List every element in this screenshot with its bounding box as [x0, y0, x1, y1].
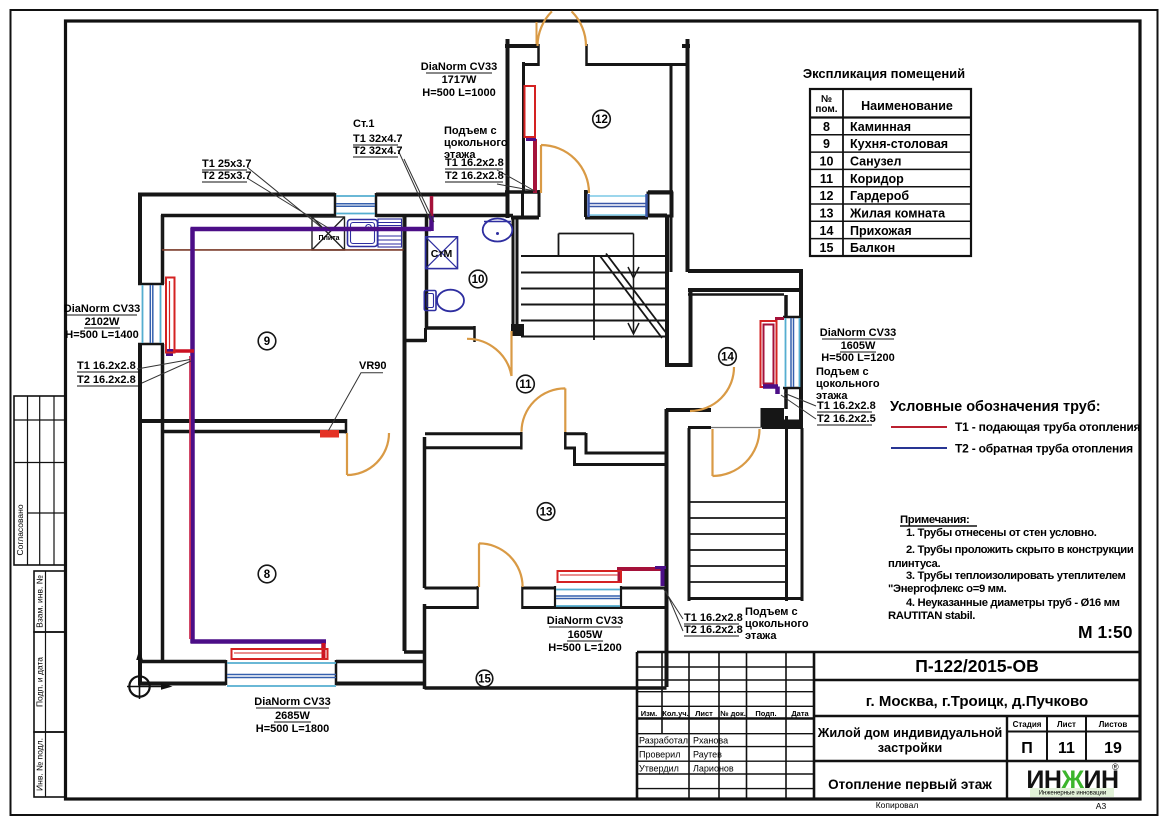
svg-text:15: 15: [478, 674, 491, 686]
svg-text:М 1:50: М 1:50: [1078, 622, 1133, 642]
svg-text:Т2 25х3.7: Т2 25х3.7: [202, 170, 252, 182]
svg-text:Примечания:: Примечания:: [900, 514, 969, 526]
svg-text:Листов: Листов: [1099, 720, 1128, 729]
svg-text:Т1 16.2х2.8: Т1 16.2х2.8: [77, 360, 136, 372]
svg-text:Экспликация помещений: Экспликация помещений: [803, 66, 965, 81]
svg-text:цокольного: цокольного: [444, 137, 508, 149]
svg-text:8: 8: [264, 569, 271, 581]
svg-text:Жилой дом индивидуальной: Жилой дом индивидуальной: [817, 725, 1003, 740]
svg-text:1605W: 1605W: [841, 340, 876, 352]
svg-text:СтМ: СтМ: [431, 248, 453, 260]
svg-text:2. Трубы проложить скрыто в ко: 2. Трубы проложить скрыто в конструкции: [906, 544, 1134, 556]
svg-text:DiaNorm CV33: DiaNorm CV33: [64, 303, 140, 315]
svg-text:Т2 16.2х2.5: Т2 16.2х2.5: [817, 413, 876, 425]
svg-text:DiaNorm CV33: DiaNorm CV33: [421, 61, 497, 73]
svg-text:1605W: 1605W: [568, 629, 603, 641]
svg-text:H=500 L=1200: H=500 L=1200: [821, 352, 894, 364]
svg-text:H=500 L=1200: H=500 L=1200: [548, 642, 621, 654]
svg-text:Согласовано: Согласовано: [15, 504, 25, 555]
svg-text:Проверил: Проверил: [639, 750, 680, 760]
svg-text:пом.: пом.: [815, 104, 837, 115]
svg-text:DiaNorm CV33: DiaNorm CV33: [547, 615, 623, 627]
svg-text:12: 12: [595, 114, 608, 126]
svg-text:14: 14: [721, 352, 734, 364]
svg-text:Условные обозначения труб:: Условные обозначения труб:: [890, 399, 1101, 415]
svg-text:11: 11: [1058, 740, 1075, 757]
svg-text:Балкон: Балкон: [850, 241, 895, 255]
svg-text:10: 10: [820, 155, 834, 169]
svg-text:г. Москва, г.Троицк, д.Пучково: г. Москва, г.Троицк, д.Пучково: [866, 693, 1088, 710]
svg-text:Дата: Дата: [791, 709, 809, 718]
svg-text:19: 19: [1104, 740, 1122, 757]
svg-text:Т1 - подающая труба отопления: Т1 - подающая труба отопления: [955, 420, 1141, 434]
svg-text:Кухня-столовая: Кухня-столовая: [850, 137, 948, 151]
svg-text:П-122/2015-ОВ: П-122/2015-ОВ: [915, 656, 1038, 676]
svg-text:А3: А3: [1096, 801, 1107, 811]
svg-text:Т2 16.2х2.8: Т2 16.2х2.8: [77, 374, 136, 386]
svg-text:9: 9: [264, 336, 270, 348]
svg-text:Взам. инв. №: Взам. инв. №: [34, 575, 44, 628]
svg-text:Лист: Лист: [695, 709, 713, 718]
svg-text:"Энергофлекс o=9 мм.: "Энергофлекс o=9 мм.: [888, 583, 1007, 595]
svg-text:RAUTITAN stabil.: RAUTITAN stabil.: [888, 610, 975, 622]
svg-text:Подъем с: Подъем с: [444, 125, 497, 137]
svg-text:Каминная: Каминная: [850, 120, 911, 134]
svg-text:4. Неуказанные диаметры труб -: 4. Неуказанные диаметры труб - Ø16 мм: [906, 597, 1120, 609]
svg-text:Разработал: Разработал: [639, 736, 688, 746]
svg-text:Жилая комната: Жилая комната: [849, 207, 946, 221]
svg-text:застройки: застройки: [878, 740, 942, 755]
svg-text:9: 9: [823, 137, 830, 151]
svg-text:H=500 L=1400: H=500 L=1400: [65, 329, 138, 341]
svg-text:11: 11: [820, 172, 833, 186]
svg-text:Подъем с: Подъем с: [745, 606, 798, 618]
svg-text:цокольного: цокольного: [745, 618, 809, 630]
svg-text:Прихожая: Прихожая: [850, 224, 912, 238]
svg-text:Т1 16.2х2.8: Т1 16.2х2.8: [445, 157, 504, 169]
svg-text:10: 10: [472, 274, 485, 286]
svg-text:№ док.: № док.: [720, 709, 746, 718]
svg-text:Инв. № подл.: Инв. № подл.: [34, 738, 44, 791]
svg-text:цокольного: цокольного: [816, 378, 880, 390]
svg-text:DiaNorm CV33: DiaNorm CV33: [254, 696, 330, 708]
svg-text:14: 14: [820, 224, 834, 238]
svg-text:Кол.уч.: Кол.уч.: [662, 709, 688, 718]
svg-text:Санузел: Санузел: [850, 155, 901, 169]
svg-text:Отопление первый этаж: Отопление первый этаж: [828, 777, 992, 792]
svg-text:Коридор: Коридор: [850, 172, 904, 186]
svg-text:Раутев: Раутев: [693, 750, 722, 760]
svg-text:Т1 32х4.7: Т1 32х4.7: [353, 133, 403, 145]
svg-text:плинтуса.: плинтуса.: [888, 558, 940, 570]
svg-text:®: ®: [1112, 762, 1119, 772]
svg-text:Т1 16.2х2.8: Т1 16.2х2.8: [817, 400, 876, 412]
svg-text:Гардероб: Гардероб: [850, 189, 909, 203]
svg-text:H=500 L=1000: H=500 L=1000: [422, 87, 495, 99]
svg-text:Ст.1: Ст.1: [353, 118, 375, 130]
svg-text:VR90: VR90: [359, 360, 387, 372]
svg-text:Наименование: Наименование: [861, 99, 953, 113]
svg-text:Ларионов: Ларионов: [693, 764, 734, 774]
svg-text:Т1 16.2х2.8: Т1 16.2х2.8: [684, 612, 743, 624]
svg-text:1. Трубы отнесены от стен усло: 1. Трубы отнесены от стен условно.: [906, 527, 1097, 539]
svg-text:15: 15: [820, 241, 834, 255]
svg-text:3. Трубы теплоизолировать утеп: 3. Трубы теплоизолировать утеплителем: [906, 570, 1125, 582]
svg-text:Стадия: Стадия: [1013, 720, 1042, 729]
svg-text:Инженерные инновации: Инженерные инновации: [1039, 791, 1107, 797]
svg-text:Т2 - обратная труба отопления: Т2 - обратная труба отопления: [955, 442, 1133, 456]
svg-text:этажа: этажа: [745, 630, 777, 642]
svg-text:13: 13: [820, 207, 834, 221]
svg-text:DiaNorm CV33: DiaNorm CV33: [820, 327, 896, 339]
svg-text:Плита: Плита: [318, 235, 339, 242]
svg-text:13: 13: [540, 507, 553, 519]
svg-text:Т2 16.2х2.8: Т2 16.2х2.8: [684, 624, 743, 636]
svg-text:Подъем с: Подъем с: [816, 366, 869, 378]
svg-text:Рханова: Рханова: [693, 736, 728, 746]
svg-text:Подп. и дата: Подп. и дата: [34, 657, 44, 707]
svg-text:2102W: 2102W: [85, 316, 120, 328]
svg-text:1717W: 1717W: [442, 74, 477, 86]
svg-text:2685W: 2685W: [275, 710, 310, 722]
svg-text:11: 11: [519, 379, 532, 391]
svg-text:Изм.: Изм.: [641, 709, 658, 718]
svg-text:Т2 32х4.7: Т2 32х4.7: [353, 145, 403, 157]
svg-text:8: 8: [823, 120, 830, 134]
svg-text:Подп.: Подп.: [755, 709, 776, 718]
svg-text:П: П: [1021, 740, 1033, 757]
svg-text:Т2 16.2х2.8: Т2 16.2х2.8: [445, 170, 504, 182]
svg-text:Копировал: Копировал: [876, 800, 919, 810]
svg-text:Утвердил: Утвердил: [639, 764, 679, 774]
svg-text:12: 12: [820, 189, 834, 203]
svg-text:Лист: Лист: [1057, 720, 1076, 729]
svg-text:H=500 L=1800: H=500 L=1800: [256, 723, 329, 735]
svg-text:Т1 25х3.7: Т1 25х3.7: [202, 158, 252, 170]
